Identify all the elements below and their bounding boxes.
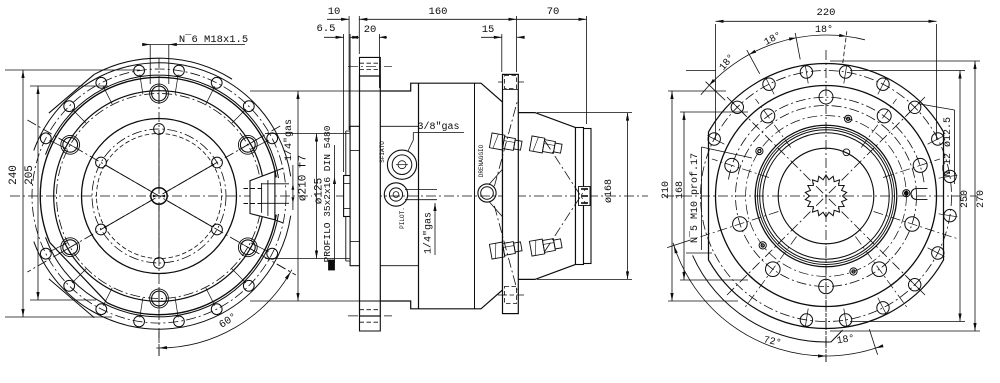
right view lower-left lobe <box>693 255 843 342</box>
dimension o168 <box>627 113 629 280</box>
right view o12.5 hole 117deg <box>763 78 775 90</box>
mounting flange plate <box>360 76 381 316</box>
drum center detail <box>579 187 591 206</box>
right view hole 162deg <box>725 158 739 172</box>
hub step disc <box>345 131 347 176</box>
svg-text:20: 20 <box>364 24 377 36</box>
left side ext segments <box>686 70 716 72</box>
svg-text:PROFILO 35x2x16 DIN 5480: PROFILO 35x2x16 DIN 5480 <box>322 125 333 262</box>
svg-text:N¯12 ø12.5: N¯12 ø12.5 <box>941 117 954 177</box>
right view o12.5 hole 27deg <box>932 133 944 145</box>
svg-text:N¯5 M10 prof.17: N¯5 M10 prof.17 <box>688 153 701 243</box>
dimension 250 <box>959 71 961 322</box>
right view hole 54deg <box>877 109 891 123</box>
body inner end line <box>474 83 476 309</box>
wheel stud <box>489 133 522 153</box>
right view hole 234deg <box>766 262 781 277</box>
left view inner bolt circle <box>92 129 226 263</box>
body joint line <box>418 83 420 309</box>
svg-text:10: 10 <box>328 6 341 18</box>
left view M18 hole 270deg <box>152 291 167 306</box>
left view spoke 150deg <box>106 165 152 191</box>
stud axis lines <box>494 100 517 186</box>
dimension arc 60deg <box>156 270 292 348</box>
left view flange OD circle <box>40 77 276 242</box>
right view o12.5 hole 279deg <box>839 314 851 326</box>
left view outer hole 27deg <box>267 133 278 144</box>
left view outer hole 225deg <box>64 280 75 291</box>
left view bolt circle N12 holes <box>32 69 286 323</box>
left view inner hole 270deg <box>154 258 165 269</box>
mounting flange top tab <box>360 57 381 76</box>
drum end cap <box>576 128 584 265</box>
left view spoke 30deg <box>167 165 213 191</box>
svg-text:ø210 f7: ø210 f7 <box>298 155 310 201</box>
svg-text:205: 205 <box>24 165 36 185</box>
PILOT port <box>384 183 407 206</box>
DRENAGGIO port <box>478 184 496 202</box>
wheel flange bottom hole hidden <box>505 287 517 304</box>
right view bore circle <box>778 148 874 244</box>
left view inner hole 90deg <box>154 124 165 135</box>
right view M10 bolt circle <box>746 116 907 277</box>
left view M18 hole 90deg <box>152 86 167 101</box>
left view outer hole 207deg <box>40 248 51 259</box>
left view inner face circle <box>82 119 237 274</box>
spline shaft stub <box>344 176 351 217</box>
drum diagonal center lines <box>545 141 586 204</box>
left view flange lower-left flat <box>50 242 107 302</box>
dimension row top <box>327 18 349 20</box>
left view lower-left chamfer <box>49 279 94 318</box>
right view hole 306deg <box>872 262 887 277</box>
right view hole 18deg <box>913 158 927 172</box>
motor body outline <box>380 83 502 309</box>
left view outer hole 63deg <box>211 77 222 88</box>
left view M18 hole 30deg <box>240 137 255 152</box>
svg-text:240: 240 <box>8 165 20 185</box>
right view bolt circle o250 <box>701 71 952 322</box>
right view o12.5 hole 315deg <box>909 279 921 291</box>
dimension arc 18deg top <box>701 35 865 95</box>
svg-text:210: 210 <box>661 181 672 199</box>
svg-text:15: 15 <box>482 24 495 36</box>
hub ring <box>350 126 359 265</box>
left view spoke 210deg <box>106 201 152 227</box>
svg-text:160: 160 <box>429 6 448 18</box>
svg-text:70: 70 <box>547 6 560 18</box>
wheel hub drum <box>518 113 575 280</box>
svg-text:1/4"gas: 1/4"gas <box>423 212 435 254</box>
right view o12.5 hole 63deg <box>877 78 889 90</box>
svg-text:1/4"gas: 1/4"gas <box>283 119 295 161</box>
left view outer hole 153deg <box>40 133 51 144</box>
left view inner hole 150deg <box>96 157 107 168</box>
svg-text:SFIATO: SFIATO <box>379 141 386 163</box>
right view bearing circles <box>755 125 897 267</box>
left view pilot circle o210 <box>54 91 265 302</box>
left view outer hole 117deg <box>96 77 107 88</box>
left view center lines <box>10 195 312 197</box>
body bore lines <box>380 125 418 127</box>
right view o12.5 hole 297deg <box>877 302 889 314</box>
section view center line <box>336 195 648 197</box>
right view o12.5 hole 153deg <box>708 133 720 145</box>
dimension o210 F7 <box>297 91 299 301</box>
left view outer hole 297deg <box>211 304 222 315</box>
left view spoke 270deg <box>158 205 160 258</box>
svg-text:6.5: 6.5 <box>317 23 336 35</box>
left view outer hole 315deg <box>243 280 254 291</box>
left view outer hole 243deg <box>96 304 107 315</box>
right view casting contour with flats <box>709 63 944 328</box>
right view upper hole circle <box>728 97 924 182</box>
flange tab hole center lines <box>348 66 392 68</box>
svg-text:ø168: ø168 <box>604 179 615 203</box>
wheel flange plate <box>503 74 519 313</box>
svg-text:270: 270 <box>976 190 987 208</box>
right view hole 126deg <box>761 109 775 123</box>
left view M18 bolt circle o205 <box>57 94 262 299</box>
left view spoke 90deg <box>158 135 160 188</box>
left view outer hole 135deg <box>64 101 75 112</box>
left view M18 hole 210deg <box>63 240 78 255</box>
left view side port boss <box>250 171 275 220</box>
left view inner hole 30deg <box>212 157 223 168</box>
dimension 220 <box>716 20 937 22</box>
right view hole 90deg <box>819 90 833 104</box>
right view o12.5 hole 261deg <box>800 314 812 326</box>
dimension arc 72deg bottom <box>673 243 829 356</box>
right view inner hole circle <box>736 106 917 287</box>
right view o12.5 hole 99deg <box>800 66 812 78</box>
svg-text:N¯6 M18x1.5: N¯6 M18x1.5 <box>179 33 248 46</box>
right view o12.5 hole 351deg <box>944 209 956 221</box>
right view hole 270deg <box>819 279 834 294</box>
left view outer hole 99deg <box>134 65 145 76</box>
wheel stud <box>489 239 522 259</box>
wheel stud <box>529 236 562 256</box>
left view spoke 330deg <box>167 201 213 227</box>
left view top bump contour <box>94 58 232 79</box>
right view splined hub <box>805 175 846 217</box>
left view inner hole 210deg <box>96 224 107 235</box>
flange pilot edge <box>360 90 381 92</box>
dimension 270 <box>974 61 976 331</box>
left view M18 hole 150deg <box>63 137 78 152</box>
right view o12.5 hole 45deg <box>909 101 921 113</box>
left view inner hole 330deg <box>212 224 223 235</box>
left view outer hole 279deg <box>174 316 185 327</box>
wheel stud <box>529 136 562 156</box>
left view outer hole 333deg <box>267 248 278 259</box>
SFIATO port <box>387 150 416 179</box>
right view hole 342deg <box>905 217 920 232</box>
dimension 168 right view <box>683 112 685 280</box>
svg-text:DRENAGGIO: DRENAGGIO <box>478 144 485 177</box>
left view outer hole 81deg <box>174 65 185 76</box>
right view side notch <box>911 189 917 200</box>
right view M10 holes <box>903 190 910 197</box>
left view outer hole 45deg <box>243 101 254 112</box>
left view center hub <box>151 188 167 204</box>
svg-text:18°: 18° <box>815 24 833 36</box>
left view outer hole 261deg <box>134 316 145 327</box>
left view o125 hidden circle <box>97 134 222 259</box>
right view o12.5 hole 135deg <box>731 101 743 113</box>
right view o12.5 hole 9deg <box>944 170 956 182</box>
right view hole 198deg <box>733 217 748 232</box>
right view o12.5 hole 333deg <box>932 247 944 259</box>
svg-text:3/8"gas: 3/8"gas <box>417 121 459 133</box>
svg-text:220: 220 <box>817 7 836 19</box>
mounting flange bottom tab <box>360 316 381 331</box>
dimension 210 right view <box>671 91 673 301</box>
svg-text:250: 250 <box>960 190 971 208</box>
left view outer casting contour <box>34 63 291 177</box>
right view o220 circle <box>716 86 937 307</box>
right view center lines <box>664 195 978 197</box>
dimension 240 <box>22 70 24 317</box>
dimension o125 <box>316 134 318 259</box>
left view upper-left chamfer <box>49 74 94 113</box>
wheel flange top hole hidden <box>505 76 517 89</box>
right view dowel hole <box>843 149 850 156</box>
dimension row two <box>324 36 344 38</box>
dimension arc 18deg bottom <box>829 347 878 356</box>
svg-text:PILOT.: PILOT. <box>399 207 406 229</box>
svg-text:168: 168 <box>675 181 686 199</box>
right view o12.5 hole 81deg <box>839 66 851 78</box>
left view M18 hole 330deg <box>240 240 255 255</box>
dimension 205 <box>37 86 39 300</box>
